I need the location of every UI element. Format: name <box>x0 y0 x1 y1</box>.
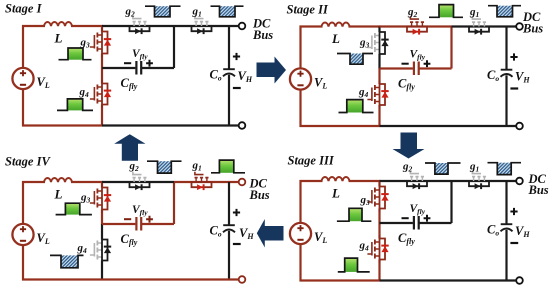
wire: junction to g1 switch <box>174 25 191 27</box>
wire: bottom rail left (return path) <box>22 124 102 126</box>
arrow: Stage I to Stage II <box>257 57 287 84</box>
wire: g1 switch to top terminal <box>213 181 239 183</box>
wire: inductor to column node <box>349 25 381 27</box>
MOSFET g1 switch (off) <box>468 180 490 182</box>
MOSFET g4 (on) <box>101 80 103 108</box>
MOSFET g3 (on) <box>101 28 103 57</box>
wire: Co rail top <box>505 27 507 70</box>
capacitor Co <box>501 69 513 71</box>
wire: Co rail top <box>228 26 230 69</box>
wire: bottom rail left (return path) <box>300 279 380 281</box>
capacitor Cfly <box>135 61 137 75</box>
gate waveform g2 (green pulse, on) <box>439 5 454 18</box>
node: DC bus bottom terminal <box>239 122 246 129</box>
wire: column g4 to bottom <box>378 109 380 127</box>
MOSFET g2 switch (off) <box>406 180 428 182</box>
wire: top-left to inductor <box>22 25 45 27</box>
node: DC bus bottom terminal <box>239 276 246 283</box>
voltage source VL <box>12 68 33 89</box>
wire: column node to g2 switch <box>380 180 407 182</box>
gate waveform g1 (hatched, off) <box>497 6 513 17</box>
wire: junction vertical to top rail <box>450 181 452 223</box>
wire: left rail top segment <box>22 181 24 224</box>
MOSFET g4 (on) <box>378 235 380 263</box>
node: DC bus top terminal <box>516 23 523 30</box>
gate waveform g1 (hatched, off) <box>497 163 511 175</box>
wire: mid node to Cfly left plate <box>102 223 135 225</box>
wire: left rail top segment <box>299 180 301 223</box>
node: DC bus top terminal <box>516 178 523 185</box>
gate waveform g2 (hatched, off) <box>158 161 172 173</box>
gate waveform g3 (green pulse, on) <box>68 48 83 60</box>
MOSFET g4 (on) <box>378 81 380 109</box>
gate waveform g4 (green pulse, on) <box>345 258 358 272</box>
wire: Cfly right plate to junction <box>141 223 174 225</box>
capacitor Co <box>501 223 513 225</box>
wire: column g3 to mid node <box>378 58 380 69</box>
wire: g1 switch to top terminal <box>490 180 516 182</box>
wire: Cfly right plate to junction <box>141 67 174 69</box>
capacitor Cfly <box>135 217 137 231</box>
inductor L <box>44 178 72 182</box>
MOSFET g3 (off) <box>378 29 380 58</box>
wire: junction to g1 switch <box>452 25 469 27</box>
wire: column drain stub <box>101 182 103 184</box>
svg-text:L: L <box>54 31 63 46</box>
voltage source VL <box>290 223 311 244</box>
wire: column mid node to g4 <box>101 68 103 80</box>
wire: Cfly right plate to junction <box>419 67 452 69</box>
arrow: Stage II to Stage III <box>393 133 425 159</box>
wire: bottom rail left (return path) <box>22 278 102 280</box>
gate waveform g4 (green pulse, on) <box>347 100 363 113</box>
wire: g2 switch to junction <box>428 180 452 182</box>
wire: g1 switch to top terminal <box>490 25 516 27</box>
svg-text:Bus: Bus <box>528 183 549 197</box>
wire: column drain stub <box>101 26 103 28</box>
wire: Co rail bottom <box>505 75 507 126</box>
wire: junction to g1 switch <box>174 181 191 183</box>
wire: bottom rail right <box>102 278 239 280</box>
wire: mid node to Cfly left plate <box>380 222 413 224</box>
capacitor Cfly <box>413 216 415 230</box>
svg-text:L: L <box>331 186 340 201</box>
gate waveform g4 (hatched, off) <box>61 255 78 267</box>
svg-text:Stage I: Stage I <box>5 1 43 15</box>
wire: left rail bottom segment <box>22 89 24 127</box>
wire: Co rail bottom <box>228 231 230 280</box>
wire: junction to g1 switch <box>452 180 469 182</box>
svg-text:Stage III: Stage III <box>288 154 335 168</box>
gate waveform g3 (hatched, off) <box>350 54 363 65</box>
gate waveform g1 (green pulse, on) <box>219 160 233 173</box>
wire: column g3 to mid node <box>101 213 103 224</box>
wire: top-left to inductor <box>300 25 323 27</box>
wire: column g4 to bottom <box>101 264 103 280</box>
wire: Co rail bottom <box>505 230 507 281</box>
wire: column drain stub <box>378 27 380 29</box>
MOSFET g3 (on) <box>378 183 380 212</box>
wire: bottom rail left (return path) <box>300 125 380 127</box>
MOSFET g1 switch (on) <box>191 181 213 183</box>
wire: column node to g2 switch <box>102 25 129 27</box>
node: DC bus bottom terminal <box>516 277 523 284</box>
wire: column node to g2 switch <box>380 25 407 27</box>
wire: left rail top segment <box>22 25 24 68</box>
gate waveform g1 (hatched, off) <box>220 6 236 17</box>
svg-text:Stage II: Stage II <box>287 2 329 16</box>
arrow: Stage IV to Stage I <box>114 134 145 161</box>
wire: g2 switch to junction <box>151 181 175 183</box>
wire: left rail bottom segment <box>299 244 301 282</box>
wire: Co rail bottom <box>228 75 230 126</box>
wire: top-left to inductor <box>22 181 45 183</box>
capacitor Co <box>223 68 235 70</box>
capacitor Co <box>223 224 235 226</box>
svg-text:L: L <box>331 31 340 46</box>
wire: mid node to Cfly left plate <box>102 67 135 69</box>
node: DC bus bottom terminal <box>516 123 523 130</box>
MOSFET g1 switch (off) <box>191 25 213 27</box>
MOSFET g4 (off) <box>101 236 103 264</box>
wire: left rail bottom segment <box>22 245 24 281</box>
wire: bottom rail right <box>380 279 517 281</box>
gate waveform g2 (hatched, off) <box>435 163 448 174</box>
MOSFET g2 switch (off) <box>129 25 151 27</box>
wire: junction vertical to top rail <box>173 182 175 224</box>
wire: left rail bottom segment <box>299 90 301 128</box>
wire: inductor to column node <box>349 180 381 182</box>
wire: bottom rail right <box>102 124 239 126</box>
arrow: Stage III to Stage IV <box>257 219 284 248</box>
wire: inductor to column node <box>71 25 103 27</box>
MOSFET g1 switch (off) <box>468 25 490 27</box>
capacitor Cfly <box>413 62 415 76</box>
wire: g1 switch to top terminal <box>213 25 239 27</box>
svg-text:Bus: Bus <box>249 188 270 202</box>
node: DC bus top terminal <box>239 179 246 186</box>
wire: column g4 to bottom <box>378 263 380 281</box>
wire: column g3 to mid node <box>378 212 380 223</box>
svg-text:Bus: Bus <box>522 21 543 35</box>
wire: column g3 to mid node <box>101 57 103 68</box>
wire: column mid node to g4 <box>378 223 380 235</box>
MOSFET g2 switch (on) <box>406 25 428 27</box>
wire: mid node to Cfly left plate <box>380 67 413 69</box>
gate waveform g3 (green pulse, on) <box>65 203 79 214</box>
wire: left rail top segment <box>299 26 301 69</box>
wire: Co rail top <box>228 182 230 225</box>
inductor L <box>322 177 350 181</box>
wire: column g4 to bottom <box>101 108 103 126</box>
wire: junction vertical to top rail <box>450 27 452 69</box>
gate waveform g3 (green pulse, on) <box>349 208 362 221</box>
wire: column drain stub <box>378 181 380 183</box>
MOSFET g2 switch (off) <box>129 181 151 183</box>
wire: g2 switch to junction <box>151 25 175 27</box>
wire: top-left to inductor <box>300 180 323 182</box>
wire: bottom rail right <box>380 125 517 127</box>
wire: column mid node to g4 <box>378 69 380 81</box>
wire: g2 switch to junction <box>428 25 452 27</box>
wire: Cfly right plate to junction <box>419 222 452 224</box>
wire: junction vertical to top rail <box>173 26 175 68</box>
voltage source VL <box>12 224 33 245</box>
gate waveform g2 (hatched, off) <box>155 6 171 17</box>
wire: Co rail top <box>505 181 507 224</box>
inductor L <box>44 22 72 26</box>
svg-text:Stage IV: Stage IV <box>5 155 51 169</box>
voltage source VL <box>290 68 311 89</box>
wire: inductor to column node <box>71 181 103 183</box>
svg-text:L: L <box>54 187 63 202</box>
wire: column node to g2 switch <box>102 181 129 183</box>
node: DC bus top terminal <box>239 23 246 30</box>
wire: column mid node to g4 <box>101 224 103 236</box>
svg-text:Bus: Bus <box>252 28 273 42</box>
gate waveform g4 (green pulse, on) <box>67 99 82 111</box>
inductor L <box>322 23 350 27</box>
MOSFET g3 (on) <box>101 184 103 213</box>
